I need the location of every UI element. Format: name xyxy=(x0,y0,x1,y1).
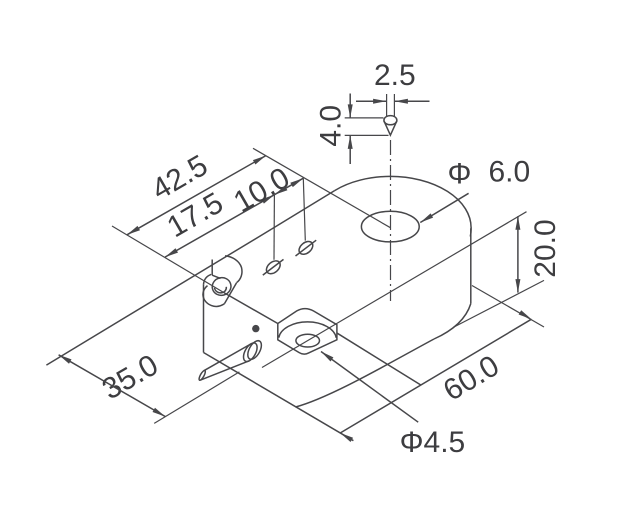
20.0 bottom extension line xyxy=(453,280,544,327)
17.5 left arrow xyxy=(165,248,178,257)
4.0 lower arrow (up) xyxy=(348,135,353,149)
4.0 dim line upper part xyxy=(349,94,351,118)
body rounded-end top ellipse arc xyxy=(335,176,472,236)
left reference extension line xyxy=(112,226,224,293)
cable gland collar far ellipse xyxy=(245,339,264,362)
svg-text:Φ: Φ xyxy=(448,158,472,191)
35.0 near extension line xyxy=(154,372,239,424)
svg-text:4.0: 4.0 xyxy=(315,105,348,147)
2.5 left arrow xyxy=(373,99,387,104)
svg-text:Φ4.5: Φ4.5 xyxy=(400,426,466,459)
10.0 dim line xyxy=(274,178,303,195)
42.5 left arrow xyxy=(127,226,140,235)
phi 6.0 leader line xyxy=(420,193,468,222)
slot floor near-right edge xyxy=(225,283,237,303)
17.5 right arrow xyxy=(261,195,274,204)
phi 4.5 leader arrow xyxy=(321,352,333,362)
60.0 right extension line xyxy=(472,286,544,328)
pad hole ellipse xyxy=(296,334,320,347)
body right vertical silhouette xyxy=(470,228,472,303)
35.0 lower arrow xyxy=(153,408,166,417)
60.0 dim line xyxy=(340,319,531,433)
20.0 dim line xyxy=(517,216,519,292)
slot floor outer rounded corner xyxy=(203,286,225,307)
body front-left vertical edge xyxy=(203,284,205,352)
4.0 upper arrow (down) xyxy=(348,104,353,118)
2.5 extension line right xyxy=(393,94,395,117)
phi 4.5 leader line xyxy=(321,352,418,423)
42.5 right arrow xyxy=(253,156,266,165)
big hole center extension line xyxy=(253,148,390,227)
sensing tip cone xyxy=(384,116,397,125)
phi 6.0 leader arrow xyxy=(420,213,433,222)
hole 2 slash xyxy=(296,240,317,256)
4.0 dim line lower part xyxy=(349,135,351,164)
10.0 left arrow xyxy=(274,186,287,195)
cable end cap xyxy=(198,370,206,381)
body front-left upper corner arc xyxy=(204,274,212,284)
LED indicator dot xyxy=(252,325,259,332)
svg-text:6.0: 6.0 xyxy=(489,156,531,189)
cable bottom line xyxy=(201,361,250,380)
20.0 top arrow xyxy=(515,216,520,230)
60.0 left arrow xyxy=(340,433,353,442)
10.0 right arrow xyxy=(290,178,303,187)
svg-text:2.5: 2.5 xyxy=(374,59,416,92)
notch rounded end wall xyxy=(225,256,242,283)
4.0 extension line top xyxy=(345,117,384,119)
cable gland collar near ellipse xyxy=(241,341,260,364)
svg-text:20.0: 20.0 xyxy=(529,219,562,277)
vertical centerline dash-dot xyxy=(390,140,392,301)
big hole (phi 6.0) ellipse xyxy=(361,211,419,242)
body bottom-front edge / 60.0 left extension xyxy=(204,353,354,441)
60.0 right arrow xyxy=(519,310,532,319)
small hole 2 on top face xyxy=(297,239,316,257)
2.5 dim line right part xyxy=(394,100,429,102)
2.5 extension line left xyxy=(386,94,388,117)
body top-face far edge xyxy=(272,191,335,229)
body front-top edge left segment xyxy=(224,293,277,324)
hole 1 slash xyxy=(263,259,284,275)
small hole 1 on top face xyxy=(264,258,283,276)
hole 1 vertical extension line xyxy=(273,195,275,260)
17.5 dim line xyxy=(165,195,274,257)
slot counterbore outer rim xyxy=(210,276,233,298)
body bottom silhouette curve xyxy=(296,339,435,407)
phi4.5 pad boss outline xyxy=(278,309,337,355)
notch left wall xyxy=(211,260,213,276)
body bottom-right arc xyxy=(434,304,471,339)
2.5 right arrow xyxy=(394,99,408,104)
body top-left edge + 35.0 far extension xyxy=(46,229,271,365)
hole 2 vertical extension line xyxy=(303,178,305,240)
2.5 dim line left part xyxy=(356,100,387,102)
4.0 extension line bottom xyxy=(345,134,389,136)
notch floor near edge xyxy=(212,275,220,278)
cable top line xyxy=(204,344,252,371)
body front-top edge right segment xyxy=(337,333,421,385)
20.0 top extension line through pad hole center xyxy=(262,212,527,368)
35.0 upper arrow xyxy=(59,355,72,364)
42.5 dim line xyxy=(127,156,266,235)
slot counterbore inner hole arc xyxy=(215,287,227,293)
35.0 dim line xyxy=(59,355,166,417)
20.0 bottom arrow xyxy=(515,279,520,293)
pad counterbore rim arc xyxy=(279,322,337,338)
